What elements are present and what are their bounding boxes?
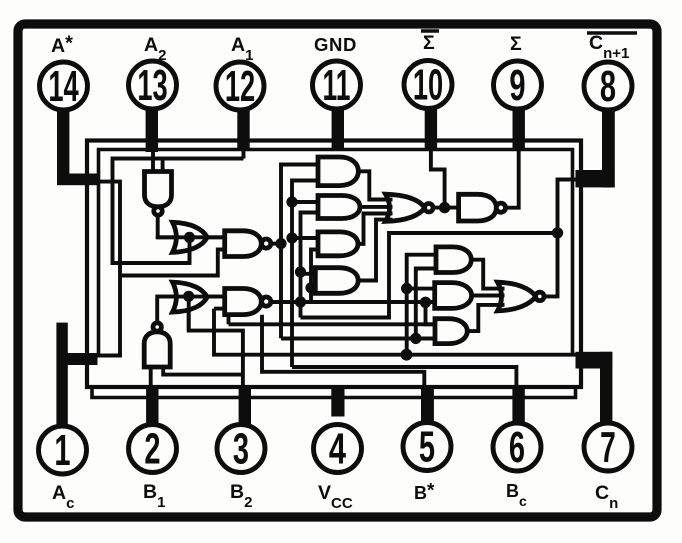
pin 7 stub elbow: [576, 352, 613, 369]
svg-text:Cn: Cn: [595, 482, 618, 512]
NAND G5 (B side): [225, 289, 262, 315]
wire Cn to AND6 input A: [407, 287, 436, 291]
wire NOR1 output: [433, 206, 460, 210]
svg-text:A1: A1: [231, 34, 253, 64]
wire G3 output to CH1: [271, 242, 283, 246]
svg-text:2: 2: [144, 423, 160, 473]
wire G2 dot riser over gate: [188, 238, 192, 264]
wire inner rail top (L2): [99, 150, 573, 357]
pin 8 stub: [602, 110, 615, 188]
NAND G6 (vertical, output up): [144, 332, 170, 367]
pin 10 stub: [425, 110, 437, 150]
pin 3 circle: [217, 425, 265, 473]
pin 2 circle: [129, 425, 177, 473]
wire NOR2 output riser: [544, 180, 578, 297]
wire pin13 to G1 input A: [151, 152, 155, 172]
pin stubs (thick): [56, 110, 614, 426]
node G4 dot: [183, 291, 194, 302]
wire G6 output riser: [155, 298, 159, 322]
wire AND7 feeder stub: [227, 315, 231, 325]
svg-text:8: 8: [600, 61, 616, 111]
svg-text:Σ: Σ: [510, 33, 522, 55]
pin 12 stub: [237, 110, 249, 150]
pin 7 circle: [584, 423, 632, 471]
wire AND4 output to NOR1: [357, 220, 389, 281]
wire NOR1 junction to pin 10: [431, 150, 445, 208]
pin 4 circle: [314, 425, 362, 473]
pin 12 circle: [216, 62, 264, 110]
node CH3 b: [295, 296, 306, 307]
pin 2 stub: [146, 385, 158, 425]
wire AND4 input B: [311, 286, 316, 290]
svg-text:11: 11: [323, 60, 351, 110]
svg-text:5: 5: [419, 421, 435, 471]
pin circles and numbers: [39, 61, 633, 475]
svg-text:Bc: Bc: [506, 481, 527, 509]
wire sigma bus (G5 out): [271, 300, 436, 304]
pin 14 stub: [57, 110, 69, 185]
wire AND7 input A feeder: [229, 322, 437, 326]
wire G4 pass line over gate: [155, 295, 225, 299]
IC body box: [87, 141, 581, 388]
wire dot drop to AND7 input A: [426, 302, 437, 324]
svg-text:Ac: Ac: [52, 482, 74, 512]
svg-text:GND: GND: [314, 34, 357, 55]
NAND G3 (A side): [225, 231, 262, 257]
wire B2 riser to G4 dot: [189, 294, 243, 387]
node G2 dot: [184, 232, 195, 243]
wire G1 input B drop: [161, 159, 165, 173]
node CH1 G3out: [275, 238, 286, 249]
svg-text:14: 14: [48, 61, 79, 110]
node Cn AND6: [401, 283, 412, 294]
svg-text:6: 6: [509, 422, 525, 472]
wire channel CH3: [301, 213, 319, 318]
wire G6 input A to pin 2: [149, 367, 153, 388]
wire AND5 input B riser: [416, 269, 437, 339]
wire AND4 input A: [301, 272, 317, 276]
pin 7 stub: [600, 352, 612, 424]
pin 10 circle: [404, 61, 452, 109]
AND1: [318, 157, 358, 186]
pin 4 stub: [331, 385, 344, 417]
pin 6 circle: [493, 423, 541, 471]
NAND2 (sigma output gate): [459, 194, 497, 221]
wire AND1 output to NOR1: [357, 171, 388, 199]
svg-text:10: 10: [413, 60, 443, 109]
pin 1 stub: [56, 323, 67, 426]
wire channel CH1: [281, 165, 319, 339]
pin 1 stub elbow: [66, 353, 98, 365]
svg-text:9: 9: [509, 60, 525, 110]
svg-text:12: 12: [225, 61, 255, 110]
pin 11 stub: [332, 110, 344, 150]
svg-text:VCC: VCC: [318, 482, 353, 512]
svg-text:3: 3: [233, 423, 249, 473]
svg-text:7: 7: [600, 423, 616, 472]
wire G6 input B to pin 3: [163, 367, 243, 375]
wire channel CH4: [311, 250, 319, 303]
AND6: [435, 283, 472, 309]
svg-text:1: 1: [54, 425, 70, 475]
svg-text:B*: B*: [414, 481, 435, 504]
node sigma bus: [420, 297, 431, 308]
wire NOR1 input stubs: [388, 198, 393, 202]
wire Bc bus to pin 6: [292, 367, 516, 390]
wire AND6 output to NOR2: [470, 294, 499, 298]
wire Cnp1 bus: [301, 233, 558, 318]
AND7: [435, 319, 467, 344]
wire AND7 output to NOR2: [466, 305, 499, 331]
wire G2 pass line to G3: [156, 235, 226, 239]
wire channel CH2: [292, 181, 319, 368]
node NOR1 out: [439, 202, 450, 213]
pin 5 circle: [403, 423, 451, 471]
node CH3 a: [295, 266, 306, 277]
pin 9 stub: [513, 110, 525, 150]
wire AND2 output to NOR1: [359, 205, 388, 209]
node AND7 input B: [410, 333, 421, 344]
wire NOR2 input stubs: [499, 287, 505, 291]
node Cn bus: [401, 349, 413, 361]
pin 9 circle: [494, 61, 542, 109]
pin 14 stub elbow: [57, 174, 98, 186]
OR G4 (B side): [173, 282, 208, 312]
wire Cn bus to pin7 elbow: [214, 309, 578, 355]
wire AND7 input B line: [281, 337, 436, 341]
wire AND2 input A: [292, 200, 319, 204]
AND2: [318, 196, 360, 219]
wire G4 dot riser over gate: [187, 296, 191, 330]
wire AND3 input A: [292, 236, 319, 240]
AND5: [436, 247, 471, 273]
wire pin12 drop: [242, 148, 246, 159]
svg-text:Cn+1: Cn+1: [589, 32, 629, 62]
svg-text:A*: A*: [51, 33, 73, 58]
wire G4 pass line to G5: [155, 295, 225, 299]
AND4: [315, 268, 358, 294]
svg-text:B1: B1: [143, 481, 165, 511]
wire AND5 output to NOR2: [470, 260, 499, 289]
wire A* branch to G3 input: [120, 250, 225, 276]
OR G2 (A side): [173, 222, 208, 252]
svg-text:13: 13: [137, 60, 167, 109]
svg-text:B2: B2: [230, 481, 252, 511]
pin 13 stub: [146, 110, 158, 152]
wire NAND2 output to pin 9: [506, 150, 519, 208]
AND3: [318, 232, 358, 256]
pin 11 circle: [313, 61, 361, 109]
wire G2 pass line over gate: [156, 235, 226, 239]
wire Cn riser: [407, 255, 437, 355]
NOR2 (carry output gate): [498, 282, 536, 311]
wire AND3 output to NOR1: [357, 214, 388, 244]
pin 3 stub: [239, 385, 251, 425]
node CH4 a: [305, 282, 316, 293]
pin 8 circle: [584, 62, 632, 110]
NAND G1 (vertical, output down): [145, 172, 172, 207]
pin 8 stub elbow: [576, 170, 613, 187]
pin 1 circle: [39, 426, 87, 474]
pin 13 circle: [129, 61, 177, 109]
svg-text:4: 4: [329, 425, 346, 474]
NOR1: [386, 194, 425, 221]
pin 6 stub: [512, 385, 524, 423]
wire A1 horizontal: [113, 159, 244, 264]
node carry riser: [552, 227, 563, 238]
wire B* line to pin 5: [262, 315, 424, 390]
node CH2 b: [286, 232, 297, 243]
wire G5 input B: [214, 307, 226, 311]
node CH2 a: [286, 196, 297, 207]
wire bottom rail: [92, 389, 576, 398]
pin 5 stub: [421, 385, 434, 423]
pin 14 circle: [40, 62, 88, 110]
svg-text:Σ: Σ: [423, 32, 435, 54]
wire A* from pin14 elbow: [96, 182, 120, 356]
wire G1 output to pass line: [156, 214, 160, 240]
